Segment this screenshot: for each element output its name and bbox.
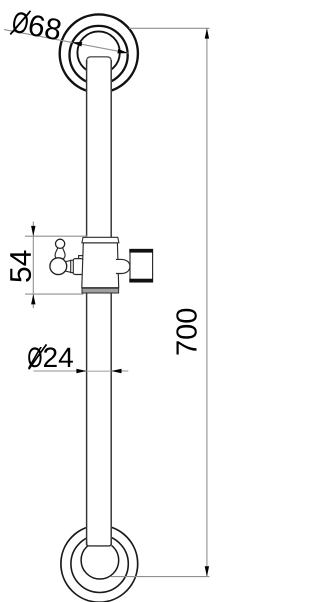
dim 54 top extension line	[25, 235, 88, 237]
holder bump	[116, 259, 130, 273]
dim 700 dimension line	[206, 28, 208, 576]
knob big ball	[50, 258, 67, 275]
dim 700 bottom extension line	[111, 576, 210, 578]
top flange outer circle	[60, 14, 138, 92]
slider bottom band	[82, 288, 119, 293]
dim Ø68 right arrow	[117, 49, 128, 54]
dim 54 bottom extension line	[25, 293, 84, 295]
dim Ø24 left arrow	[76, 369, 86, 373]
dim Ø68 text	[10, 8, 62, 43]
rail bottom cap	[87, 541, 112, 546]
dim 700 bottom arrow	[205, 566, 209, 576]
holder cup bottom band	[129, 279, 153, 283]
dim Ø68 left arrow	[72, 42, 83, 47]
dim 54 text	[10, 250, 31, 281]
dim Ø24 inner line	[87, 370, 111, 372]
rail body white fill	[86, 57, 112, 546]
slider main body	[82, 243, 119, 288]
dim Ø24 right arrow	[111, 369, 121, 373]
dim Ø24 text	[28, 344, 73, 369]
dim 54 dimension line	[32, 222, 34, 309]
bottom flange inner circle	[81, 541, 119, 579]
rail top cap	[87, 57, 112, 64]
slider left tab	[79, 256, 84, 274]
knob neck cone	[64, 261, 71, 273]
knob disc	[71, 260, 74, 272]
knob mount cylinder	[73, 259, 83, 275]
dim Ø68 leader line	[4, 30, 129, 54]
dim Ø24 right tail	[111, 370, 128, 372]
bottom flange middle circle	[71, 535, 128, 592]
dim 700 top arrow	[205, 28, 209, 38]
dim Ø24 left dimension line	[34, 370, 87, 372]
rail left line	[86, 60, 88, 545]
holder cup top band	[129, 249, 153, 253]
top flange inner circle	[77, 31, 119, 73]
top flange middle circle	[70, 26, 128, 84]
knob small top ball	[56, 239, 65, 248]
slider top cap	[82, 237, 119, 243]
rail right line	[110, 60, 112, 545]
holder cup body	[130, 249, 153, 282]
dim 54 top arrow	[31, 226, 35, 236]
knob vase	[55, 248, 65, 260]
bottom flange outer circle	[61, 525, 138, 602]
dim 54 bottom arrow	[31, 294, 35, 304]
dim 700 text	[176, 309, 197, 355]
dim 700 top extension line	[129, 27, 210, 29]
